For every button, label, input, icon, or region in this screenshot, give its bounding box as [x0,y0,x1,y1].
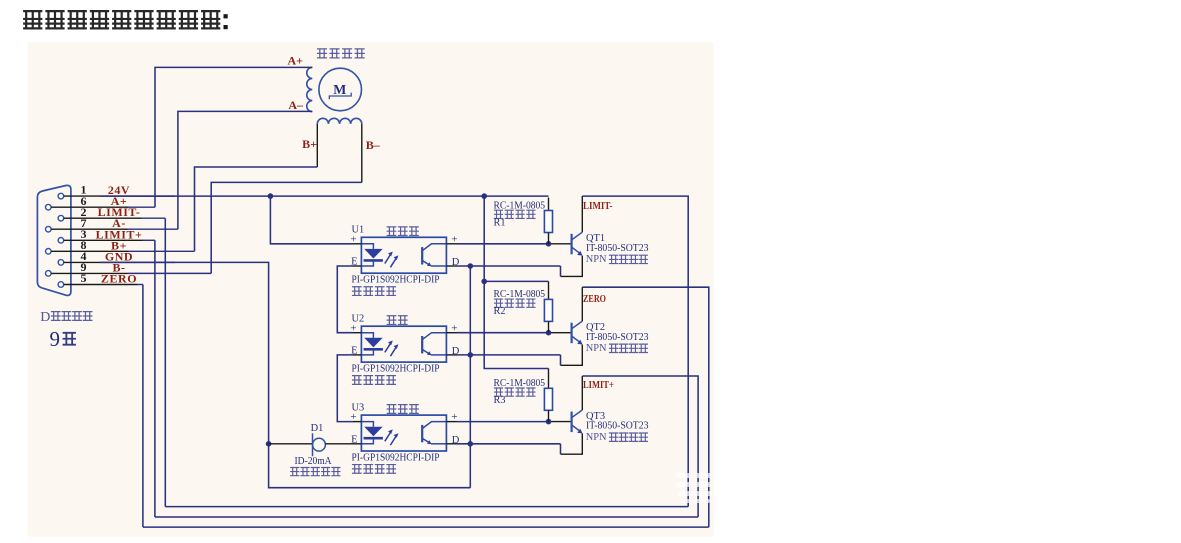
svg-text:PI-GP1S092HCPI-DIP: PI-GP1S092HCPI-DIP [352,275,440,286]
wire A- from coil to connector pin 7 [178,111,312,229]
pin 2 circle [58,215,64,221]
node 24V junction at R2/R3 feed [481,193,487,199]
wire B+ lead black [316,124,318,167]
wire QT1 collector to LIMIT- loop [581,196,583,232]
svg-text:IT-8050-SOT23: IT-8050-SOT23 [586,421,649,432]
svg-text:NPN: NPN [586,254,607,265]
wire LIMIT- right loop [582,196,688,507]
stepper motor M1 circle [319,68,362,111]
optocoupler U3 function name [387,405,419,414]
svg-text:LIMIT-: LIMIT- [583,200,613,212]
node 24V junction at U1 feed [268,193,274,199]
wire U3 collector output to base node [457,421,549,423]
svg-text:ZERO: ZERO [101,272,137,286]
wire U1 collector output to base node [457,243,549,245]
winding A coil L-A [307,67,313,111]
optocoupler U3 light arrows [385,431,392,442]
pin 3 circle [58,238,64,244]
wire GND to D1 anode [269,443,313,445]
transistor QT2 IT-8050-SOT23 NPN [570,323,572,344]
diode D1 constant-current [312,433,314,456]
wire 24V feed to R2 [484,196,548,281]
wire GND from pin 4 down to D1 [100,262,470,487]
optocoupler U1 phototransistor [421,247,423,264]
title 滑台线缆接口及定义： [23,11,220,28]
wire QT2 emitter return [561,345,583,366]
optocoupler U1 light arrows [385,253,392,264]
wire B- lead black [361,124,363,182]
wire 24V to U1 anode [270,196,353,244]
optocoupler U2 function name [387,316,408,325]
svg-text:D1: D1 [311,423,324,434]
wire 24V rail [100,195,549,197]
connector J1 D-sub 9-pin outline [37,185,71,295]
pin 5 lead [64,284,138,286]
wire B- to connector pin 9 [211,182,362,273]
wire U2 collector output to base node [457,332,549,334]
wire emitter-collector return vertical [469,266,471,488]
wire QT2 collector to ZERO loop [581,287,583,321]
wire LIMIT- bottom rail [165,506,688,508]
pin 4 circle [58,260,64,266]
svg-text:ID-20mA: ID-20mA [295,456,333,467]
wire A+ from coil to connector pin 6 [155,67,312,207]
svg-text:R3: R3 [494,395,506,406]
svg-text:NPN: NPN [586,432,607,443]
svg-text:NPN: NPN [586,343,607,354]
optocoupler U1 body [361,237,446,273]
node base junction QT2 [546,330,552,336]
optocoupler U1 LED [361,244,373,249]
wire QT3 emitter return [561,434,583,455]
wire D rail U1 [457,265,561,267]
label 步进电机 [317,49,365,58]
svg-text:U2: U2 [352,314,365,325]
wire LIMIT+ right loop [582,376,698,517]
optocoupler U1 function name [387,227,419,236]
pin 1 lead [64,195,132,197]
svg-text:B–: B– [366,138,381,152]
pin 8 circle [46,249,52,255]
transistor QT1 IT-8050-SOT23 NPN [570,234,572,255]
optocoupler U2 pin stubs [353,332,361,334]
svg-text:ZERO: ZERO [583,293,606,305]
optocoupler U2 LED [361,333,373,338]
wire ZERO left drop from pin 5 [142,285,144,528]
wire LIMIT+ left drop from pin 3 [154,240,156,517]
svg-text:+: + [451,233,457,245]
svg-text:5: 5 [81,271,87,285]
node junction R2/R3 feed split [481,279,487,285]
wire R3 bottom lead [548,410,550,421]
svg-text:+: + [451,322,457,334]
motor rotor bracket [329,93,351,100]
wire U2 cathode E to U3 anode [337,355,353,422]
optocoupler U3 body [361,415,446,451]
transistor QT3 IT-8050-SOT23 NPN [570,412,572,433]
optocoupler U3 LED [361,422,373,427]
svg-text:M: M [333,82,346,97]
wire ZERO bottom rail [143,526,709,528]
optocoupler U1 pin stubs [353,243,361,245]
svg-text:9: 9 [50,327,61,351]
wire D rail U3 [457,443,561,445]
svg-text:U1: U1 [352,225,365,236]
svg-text:U3: U3 [352,402,365,413]
winding B coil L-B [317,118,362,124]
resistor R1 RC-1M-0805 [544,211,552,233]
svg-text:B+: B+ [302,137,317,151]
optocoupler U3 pin stubs [353,421,361,423]
wire D rail U2 [457,354,561,356]
wire R1 bottom lead [548,233,550,244]
pin 9 lead [51,272,127,274]
label 恒流二极管 [290,468,340,476]
resistor R2 RC-1M-0805 [544,299,552,321]
wire 24V feed to R3 [484,281,548,368]
svg-text:R2: R2 [494,306,506,317]
pin 9 circle [46,271,52,277]
svg-text:D: D [40,310,50,325]
svg-text:IT-8050-SOT23: IT-8050-SOT23 [586,243,649,254]
schematic background [28,42,714,537]
optocoupler U2 phototransistor [421,336,423,353]
node D junction U3 [468,441,474,447]
wire D1 cathode to U3 E [325,443,353,445]
pin 7 lead [51,228,127,230]
node D junction U2 [468,352,474,358]
watermark (faint) [676,473,712,503]
svg-text:+: + [451,411,457,423]
svg-text:LIMIT+: LIMIT+ [583,379,614,391]
svg-text:R1: R1 [494,217,506,228]
pin 3 lead [64,239,143,241]
wire LIMIT- left drop from pin 2 [164,218,166,506]
wire QT1 emitter return [561,256,583,277]
resistor R3 RC-1M-0805 [544,388,552,410]
svg-text:PI-GP1S092HCPI-DIP: PI-GP1S092HCPI-DIP [352,452,440,463]
optocoupler U1 label 集成光耦 [352,287,396,296]
wire U1 cathode E to U2 anode [337,266,353,333]
svg-text:A+: A+ [287,54,303,68]
optocoupler U3 phototransistor [421,425,423,442]
pin 1 circle [58,193,64,199]
node GND junction at D1 [266,441,272,447]
svg-text:IT-8050-SOT23: IT-8050-SOT23 [586,332,649,343]
optocoupler U2 label 集成光耦 [352,376,396,385]
optocoupler U3 label 集成光耦 [352,465,396,474]
optocoupler U2 light arrows [385,342,392,353]
svg-text:PI-GP1S092HCPI-DIP: PI-GP1S092HCPI-DIP [352,364,440,375]
node D junction U1 [468,263,474,269]
pin 4 lead [64,261,135,263]
pin 2 lead [64,217,142,219]
pin 6 lead [51,206,128,208]
pin 8 lead [51,250,128,252]
wire B+ to connector pin 8 [195,167,318,251]
wire R2 bottom lead [548,321,550,332]
pin 6 circle [46,204,52,210]
pin 7 circle [46,226,52,232]
node base junction QT1 [546,241,552,247]
pin 5 circle [58,282,64,288]
svg-text:A–: A– [288,98,304,112]
wire QT3 collector to LIMIT+ loop [581,376,583,410]
node base junction QT3 [546,419,552,425]
wire LIMIT+ bottom rail [155,516,698,518]
wire ZERO right loop [582,287,709,527]
optocoupler U2 body [361,326,446,362]
